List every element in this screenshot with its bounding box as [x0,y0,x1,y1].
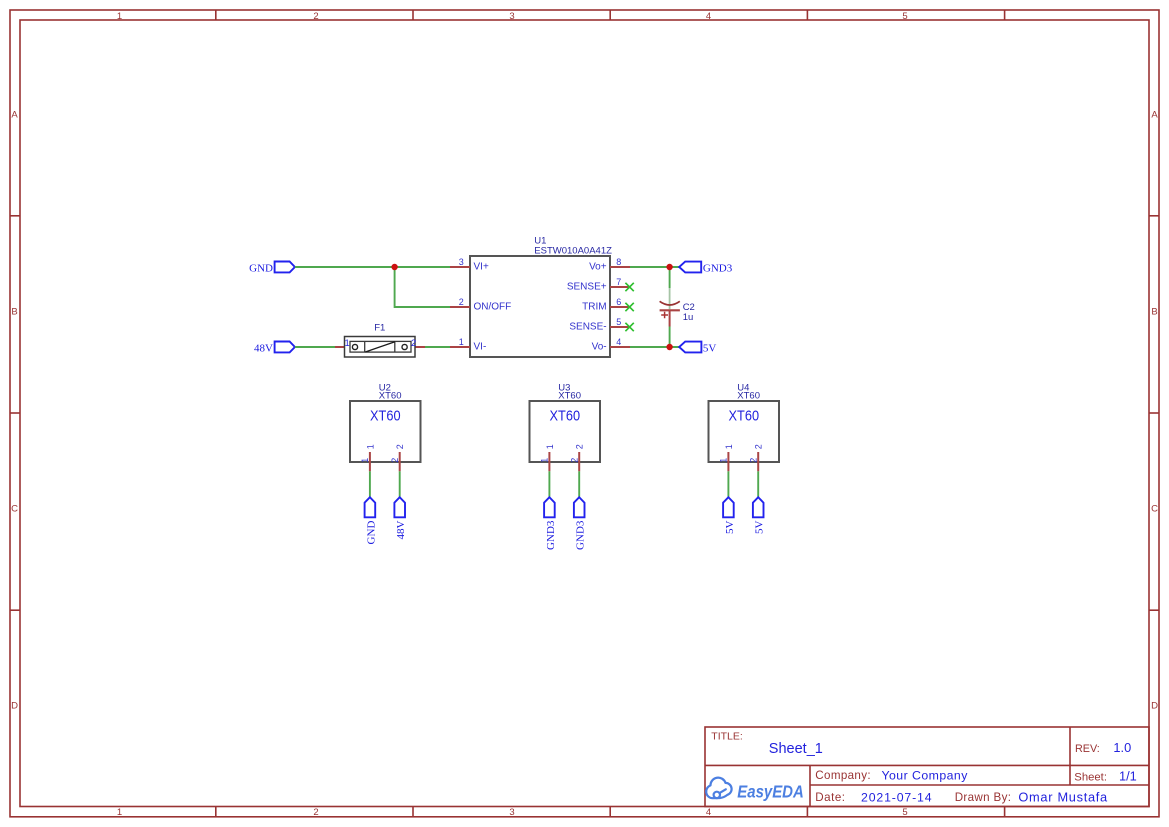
svg-text:REV:: REV: [1075,743,1100,755]
pin 2 of U2 [390,444,405,471]
svg-text:VI-: VI- [474,341,487,352]
junction at GND net [391,264,397,270]
svg-text:3: 3 [459,257,464,267]
net flag GND3 (U3 pin 1) [544,497,557,550]
svg-text:2: 2 [411,338,416,349]
net flag 48V [254,342,295,355]
EasyEDA logo [706,778,731,799]
svg-text:3: 3 [509,11,514,22]
pin 7 SENSE+ [567,277,630,293]
svg-text:XT60: XT60 [550,408,581,425]
svg-text:8: 8 [616,257,621,267]
svg-text:2: 2 [459,297,464,307]
svg-text:TITLE:: TITLE: [711,731,743,743]
svg-text:1: 1 [719,458,729,463]
svg-text:GND: GND [365,521,377,545]
wire pin 8 to GND3 flag [630,266,679,268]
svg-text:F1: F1 [374,323,385,334]
wire U2 pin 1 to GND flag [369,471,371,497]
wire 48V to fuse [295,346,335,348]
svg-text:5V: 5V [754,521,766,535]
svg-text:C: C [11,504,18,515]
svg-text:5: 5 [902,807,907,818]
wire U2 pin 2 to 48V flag [399,471,401,497]
no-connect X pin 6 [625,303,633,311]
svg-text:2: 2 [570,458,580,463]
svg-text:4: 4 [706,11,711,22]
net flag 5V [679,342,716,355]
svg-text:4: 4 [706,807,711,818]
svg-text:D: D [11,701,18,712]
svg-text:48V: 48V [254,342,273,354]
svg-text:Your Company: Your Company [882,768,969,782]
svg-text:Date:: Date: [815,791,845,804]
svg-text:Sheet:: Sheet: [1074,771,1107,783]
no-connect X pin 7 [625,283,633,291]
svg-text:D: D [1151,701,1158,712]
svg-text:2: 2 [749,458,759,463]
svg-text:1: 1 [459,337,464,347]
wire GND to pin 3 [295,266,450,268]
wire junction to pin 2 [395,267,450,307]
svg-text:5: 5 [902,11,907,22]
svg-text:2: 2 [390,458,400,463]
net flag GND3 (U3 pin 2) [574,497,587,550]
wire pin 4 to 5V flag [630,346,679,348]
svg-text:Company:: Company: [815,769,871,782]
svg-text:1.0: 1.0 [1113,740,1131,755]
pin 2 ON/OFF [450,297,511,313]
svg-text:SENSE-: SENSE- [569,321,606,332]
connector U2 XT60 [350,382,421,462]
svg-text:Omar Mustafa: Omar Mustafa [1018,789,1108,804]
svg-text:5V: 5V [724,521,736,535]
pin 2 of U3 [570,444,585,471]
svg-text:2021-07-14: 2021-07-14 [861,790,932,804]
svg-text:GND: GND [249,262,273,274]
svg-text:1: 1 [117,807,122,818]
pin 5 SENSE- [569,317,630,333]
pin 1 of U4 [719,444,734,471]
svg-text:48V: 48V [395,521,407,540]
pin 3 VI+ [450,257,489,273]
wire U3 pin 1 to GND3 flag [548,471,550,497]
svg-text:2: 2 [313,11,318,22]
net flag 48V (U2 pin 2) [394,497,407,539]
svg-text:SENSE+: SENSE+ [567,281,607,292]
wire U3 pin 2 to GND3 flag [578,471,580,497]
pin 8 Vo+ [589,257,630,273]
svg-text:2: 2 [395,444,405,449]
svg-text:TRIM: TRIM [582,301,606,312]
svg-text:2: 2 [313,807,318,818]
svg-text:EasyEDA: EasyEDA [737,782,803,801]
svg-text:2: 2 [754,444,764,449]
svg-text:1: 1 [724,444,734,449]
svg-text:Drawn By:: Drawn By: [955,791,1012,804]
fuse F1 [335,323,425,357]
wire C2 bottom [669,327,671,348]
svg-text:1: 1 [365,444,375,449]
svg-text:XT60: XT60 [729,408,760,425]
pin 6 TRIM [582,297,630,313]
svg-text:1: 1 [540,458,550,463]
svg-text:1: 1 [545,444,555,449]
svg-text:Sheet_1: Sheet_1 [769,741,823,757]
svg-text:B: B [1151,307,1157,318]
junction pin 8 [666,264,672,270]
svg-text:GND3: GND3 [703,262,733,274]
svg-text:A: A [11,110,18,121]
svg-text:XT60: XT60 [558,391,581,402]
net flag GND [249,262,295,275]
wire fuse to pin 1 [425,346,450,348]
svg-text:5: 5 [616,317,621,327]
pin 4 Vo- [592,337,630,353]
pin 1 VI- [450,337,486,353]
net flag 5V (U4 pin 1) [723,497,736,534]
capacitor C2 1u [660,301,695,326]
svg-text:GND3: GND3 [545,520,557,550]
svg-text:5V: 5V [703,342,717,354]
svg-text:Vo+: Vo+ [589,261,607,272]
svg-text:7: 7 [616,277,621,287]
net flag GND3 [679,262,733,275]
junction pin 4 [666,344,672,350]
svg-text:1/1: 1/1 [1119,769,1137,784]
wire U4 pin 2 to 5V flag [757,471,759,497]
svg-text:A: A [1151,110,1158,121]
title block [705,727,1149,807]
pin 1 of U2 [360,444,375,471]
svg-text:XT60: XT60 [370,408,401,425]
svg-text:ESTW010A0A41Z: ESTW010A0A41Z [534,246,612,257]
svg-text:3: 3 [509,807,514,818]
connector U3 XT60 [530,382,601,462]
pin 1 of U3 [540,444,555,471]
svg-text:B: B [11,307,17,318]
svg-text:2: 2 [575,444,585,449]
svg-text:4: 4 [616,337,621,347]
svg-text:ON/OFF: ON/OFF [474,301,512,312]
svg-text:Vo-: Vo- [592,341,607,352]
svg-text:1: 1 [117,11,122,22]
net flag GND (U2 pin 1) [365,497,378,544]
svg-text:1u: 1u [683,312,694,323]
no-connect X pin 5 [625,323,633,331]
svg-text:6: 6 [616,297,621,307]
svg-text:XT60: XT60 [379,391,402,402]
wire U4 pin 1 to 5V flag [727,471,729,497]
svg-text:1: 1 [345,338,350,349]
svg-text:XT60: XT60 [737,391,760,402]
IC U1 ESTW010A0A41Z [470,236,612,357]
connector U4 XT60 [709,382,780,462]
svg-text:C: C [1151,504,1158,515]
net flag 5V (U4 pin 2) [753,497,766,534]
pin 2 of U4 [749,444,764,471]
svg-text:VI+: VI+ [474,261,489,272]
wire C2 top [669,267,671,288]
svg-text:GND3: GND3 [575,520,587,550]
svg-text:1: 1 [360,458,370,463]
